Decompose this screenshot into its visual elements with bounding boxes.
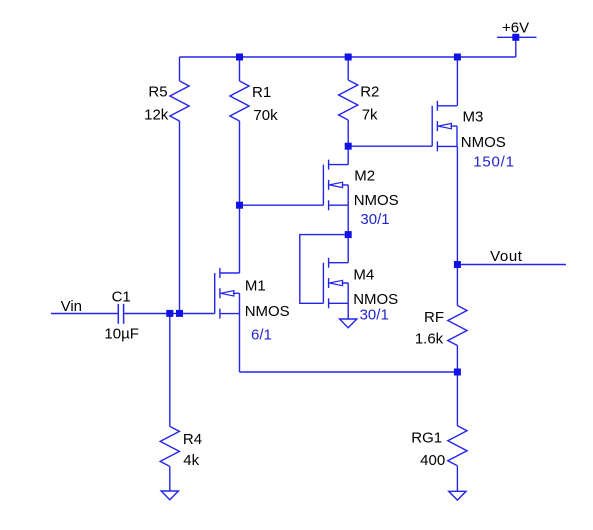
wire M1 source lead bbox=[239, 314, 241, 372]
svg-text:30/1: 30/1 bbox=[360, 306, 389, 323]
svg-text:NMOS: NMOS bbox=[245, 303, 290, 320]
wire R2 top lead bbox=[347, 57, 349, 80]
svg-text:R2: R2 bbox=[360, 84, 379, 101]
ground below R4 bbox=[161, 491, 178, 500]
svg-text:30/1: 30/1 bbox=[360, 211, 389, 228]
transistor M3 bbox=[432, 101, 457, 152]
svg-text:Vout: Vout bbox=[490, 248, 523, 265]
svg-text:6/1: 6/1 bbox=[251, 326, 272, 343]
svg-text:4k: 4k bbox=[183, 452, 199, 469]
transistor M1 bbox=[215, 268, 240, 319]
node input R4 junction bbox=[166, 310, 173, 317]
wire M4 drain lead bbox=[347, 235, 349, 263]
wire Vout output bbox=[457, 264, 566, 266]
wire Vin input bbox=[51, 313, 118, 315]
svg-text:RF: RF bbox=[424, 309, 444, 326]
svg-text:R5: R5 bbox=[148, 84, 167, 101]
wire RF top lead bbox=[456, 265, 458, 306]
node input R5 junction bbox=[176, 310, 183, 317]
wire M3 drain lead bbox=[456, 57, 458, 106]
wire M3 source to Vout node bbox=[456, 146, 458, 264]
wire R1 top lead bbox=[239, 57, 241, 81]
svg-text:M4: M4 bbox=[353, 267, 374, 284]
resistor R5 bbox=[170, 81, 189, 121]
svg-text:10µF: 10µF bbox=[104, 326, 138, 343]
svg-text:M3: M3 bbox=[463, 109, 484, 126]
wire RF bottom lead bbox=[456, 346, 458, 373]
resistor RG1 bbox=[448, 426, 467, 466]
wire R2 bottom lead bbox=[347, 120, 349, 146]
svg-text:1.6k: 1.6k bbox=[415, 331, 444, 348]
svg-text:7k: 7k bbox=[362, 107, 378, 124]
transistor M4 bbox=[323, 258, 348, 309]
svg-text:NMOS: NMOS bbox=[354, 192, 399, 209]
wire RG1 top lead bbox=[456, 372, 458, 426]
wire M4 gate loop bbox=[300, 235, 348, 304]
ground below M4 bbox=[340, 319, 357, 328]
wire C1 to M1 gate bbox=[124, 313, 214, 315]
node Vout junction bbox=[454, 261, 461, 268]
wire +6V stub bbox=[515, 37, 517, 57]
ground below RG1 bbox=[449, 491, 466, 500]
svg-text:150/1: 150/1 bbox=[473, 153, 515, 170]
svg-text:M1: M1 bbox=[245, 277, 266, 294]
wire R5 top lead bbox=[179, 57, 181, 81]
svg-text:12k: 12k bbox=[144, 106, 169, 123]
resistor R4 bbox=[160, 426, 179, 466]
capacitor C1 plates bbox=[118, 304, 123, 324]
node B junction bbox=[345, 143, 352, 150]
wire RG1 bottom lead bbox=[456, 466, 458, 492]
wire node B to M3 gate bbox=[348, 145, 432, 147]
resistor RF bbox=[448, 306, 467, 346]
svg-text:R1: R1 bbox=[252, 84, 271, 101]
wire R1 bottom lead to node A bbox=[239, 121, 241, 205]
svg-text:70k: 70k bbox=[253, 107, 278, 124]
wire M2 drain lead bbox=[347, 146, 349, 164]
wire R4 bottom lead bbox=[169, 466, 171, 491]
svg-text:NMOS: NMOS bbox=[461, 134, 506, 151]
node RF-RG1 junction bbox=[454, 369, 461, 376]
resistor R1 bbox=[230, 81, 249, 121]
wire node A to M2 gate bbox=[240, 204, 324, 206]
wire M4 source lead bbox=[347, 303, 349, 319]
svg-text:M2: M2 bbox=[354, 167, 375, 184]
wire M2 source lead bbox=[347, 205, 349, 234]
node rail-R1 junction bbox=[236, 54, 243, 61]
svg-text:C1: C1 bbox=[112, 288, 131, 305]
node rail-R2 junction bbox=[345, 54, 352, 61]
transistor M2 bbox=[323, 160, 348, 211]
wire node A to M1 drain bbox=[239, 205, 241, 273]
wire +6V flag bar bbox=[497, 36, 537, 38]
node rail-M3 junction bbox=[454, 54, 461, 61]
svg-text:RG1: RG1 bbox=[411, 429, 442, 446]
wire feedback to RF/RG1 node bbox=[240, 371, 458, 373]
svg-text:+6V: +6V bbox=[502, 20, 529, 37]
node M2-M4 junction bbox=[345, 231, 352, 238]
wire top supply rail bbox=[180, 56, 516, 58]
svg-text:Vin: Vin bbox=[61, 298, 82, 315]
wire R5 bottom lead bbox=[179, 121, 181, 313]
wire R4 branch bbox=[169, 313, 171, 426]
svg-text:400: 400 bbox=[420, 452, 445, 469]
node A junction bbox=[236, 202, 243, 209]
node +6V flag junction bbox=[512, 34, 519, 41]
resistor R2 bbox=[339, 80, 358, 120]
svg-text:R4: R4 bbox=[183, 431, 202, 448]
